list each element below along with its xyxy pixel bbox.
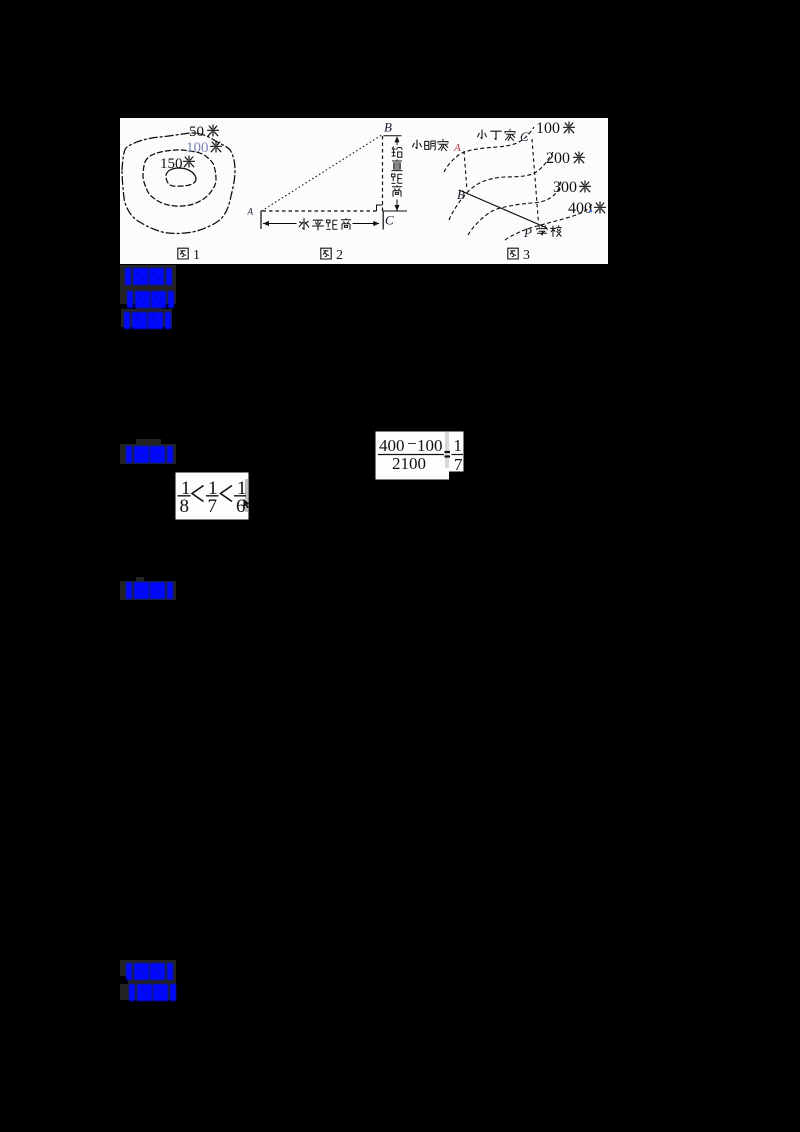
halo behind JieDa: [120, 444, 176, 464]
blue label KaoDian 2: [126, 963, 173, 980]
fig1 caption: [178, 248, 188, 259]
svg-text:B: B: [384, 120, 392, 135]
tick at C: [382, 211, 384, 230]
tick at A: [260, 211, 262, 230]
svg-text:C: C: [520, 129, 529, 144]
svg-text:50: 50: [189, 124, 204, 140]
svg-text:B: B: [457, 187, 465, 202]
contour c1: [444, 127, 534, 172]
solid line B to P: [459, 190, 547, 228]
fig2 caption: [321, 248, 331, 259]
fig2 horizontal distance text: [299, 219, 309, 230]
fig2 triangle: [261, 135, 407, 230]
fig2 vertical distance text: [392, 147, 403, 158]
fig1 middle contour: [143, 150, 216, 206]
svg-text:200: 200: [546, 150, 570, 167]
contour c4: [505, 204, 592, 240]
svg-text:2: 2: [336, 248, 343, 263]
svg-text:1: 1: [454, 436, 463, 455]
top tick at B: [384, 135, 402, 137]
fig3 caption: [508, 248, 518, 259]
svg-text:8: 8: [180, 496, 190, 517]
fig1 outer contour: [122, 133, 235, 234]
svg-text:P: P: [523, 225, 532, 240]
horizontal AC dashed: [263, 210, 380, 212]
fig3 map: [444, 127, 592, 240]
svg-text:150: 150: [160, 156, 183, 172]
svg-text:A: A: [453, 142, 461, 154]
vertical measure arrows: [396, 137, 398, 211]
right angle mark: [377, 205, 383, 211]
svg-text:300: 300: [553, 179, 577, 196]
halo behind DianPing: [120, 581, 176, 600]
halo behind lines 1-2: [120, 265, 176, 304]
svg-text:3: 3: [523, 248, 530, 263]
fig3 contour value labels: [536, 120, 592, 217]
svg-text:400: 400: [568, 200, 592, 217]
vertical BC dashed: [382, 136, 384, 211]
blue label ZhuanTi 2: [129, 984, 176, 1001]
contour c3: [468, 181, 561, 235]
blue label ZhuanTi 1: [127, 291, 174, 308]
svg-text:1: 1: [193, 248, 200, 263]
svg-text:2100: 2100: [392, 454, 426, 473]
halo behind bottom pair: [120, 960, 176, 1000]
svg-text:100: 100: [417, 436, 443, 455]
blue label KaoDian 1: [125, 268, 172, 285]
blue label DianPing: [126, 582, 173, 599]
blue speck near 400mi: [590, 210, 593, 213]
svg-text:100: 100: [536, 120, 560, 137]
blue label FenXi: [124, 312, 171, 329]
halo behind line 3: [121, 309, 172, 327]
fig2 vertex labels: [247, 120, 395, 228]
svg-text:7: 7: [208, 496, 218, 517]
formula image: (400-100)/2100 = 1/7: [375, 431, 464, 480]
contour c2: [449, 152, 553, 220]
horizontal measure arrows: [263, 223, 379, 225]
bottom tick right of C: [384, 210, 408, 212]
svg-text:400: 400: [379, 436, 405, 455]
fraction compare image: 1/8 < 1/7 < 1/6: [175, 472, 249, 520]
blue label JieDa: [126, 446, 173, 463]
cursor arrow: [244, 499, 251, 508]
figure strip image (three figures on white): [120, 118, 608, 264]
fig3 home labels: [413, 140, 422, 149]
svg-text:7: 7: [454, 455, 463, 474]
svg-text:100: 100: [186, 140, 209, 156]
fig1 label 50mi: [160, 124, 209, 172]
dashed segment A to B: [464, 151, 467, 190]
svg-text:−: −: [407, 434, 417, 453]
hypotenuse AB dotted: [262, 135, 383, 212]
dashed segment C to P: [532, 139, 539, 223]
svg-text:C: C: [385, 213, 394, 228]
svg-text:A: A: [247, 207, 254, 217]
fig1 inner peak curve: [166, 168, 196, 179]
